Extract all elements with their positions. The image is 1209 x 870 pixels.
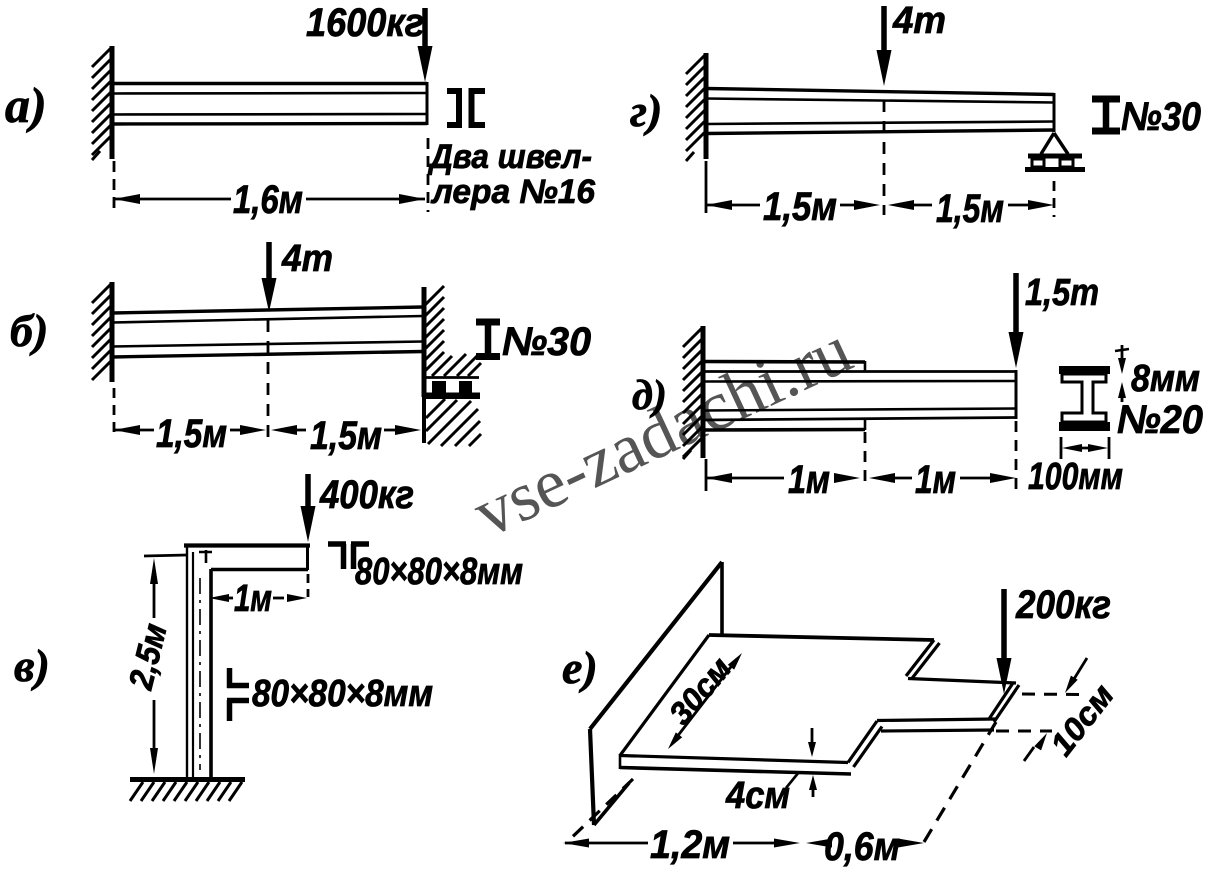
svg-text:1,5т: 1,5т (1025, 272, 1099, 314)
4cm dimension arrows (786, 728, 817, 797)
wall support D (683, 326, 703, 459)
svg-text:1,6м: 1,6м (233, 178, 303, 222)
extension line D middle (dashed) (864, 432, 867, 489)
beam D bottom cover plate (703, 419, 865, 430)
load arrow 4t B (262, 242, 277, 312)
arrow to tip upper (10cm) (1065, 658, 1087, 693)
extension line B left (dashed) (113, 388, 116, 438)
angle pair symbol top (328, 544, 369, 569)
svg-text:№30: №30 (1121, 95, 1201, 139)
wall support G (686, 53, 706, 161)
wall plate (3d) (590, 562, 722, 825)
wall B right lower hatch (426, 399, 481, 446)
beam A (two channels) (112, 82, 427, 125)
svg-text:100мм: 100мм (1028, 456, 1123, 498)
2.5m dimension: top tick (144, 555, 187, 556)
slab narrow extension back edge (908, 679, 1016, 684)
center dashed line G (883, 100, 886, 215)
extension line D right (dashed) (1015, 421, 1018, 489)
svg-text:д): д) (632, 373, 667, 419)
load arrow 200kg (997, 589, 1012, 694)
30cm dimension arrow (668, 653, 742, 749)
extension dashed below arm end (307, 574, 310, 597)
svg-text:400кг: 400кг (319, 473, 414, 517)
bottom dimension 1.2m + 0.6m (563, 839, 924, 848)
slab tip end face (989, 683, 1019, 722)
svg-text:1,2м: 1,2м (650, 823, 730, 867)
ground support (130, 780, 245, 802)
column (two angles) (187, 547, 211, 778)
section D: I-beam outline (1062, 374, 1106, 422)
100mm dimension (1061, 437, 1109, 459)
load arrow 1.5t D (1009, 273, 1024, 368)
svg-text:200кг: 200кг (1015, 583, 1111, 627)
svg-text:1м: 1м (234, 578, 272, 620)
svg-text:1,5м: 1,5м (310, 414, 382, 458)
extension line G left (solid) (705, 161, 708, 213)
svg-text:0,6м: 0,6м (824, 825, 900, 869)
dashed slant line left (to dimension) (566, 779, 633, 843)
svg-text:4см: 4см (725, 775, 790, 817)
2.5m dimension line with arrows (150, 558, 158, 774)
extension line left A (dashed) (113, 161, 116, 208)
svg-text:4т: 4т (281, 238, 333, 280)
svg-text:Два швел-: Два швел- (427, 138, 592, 176)
dimension line B 1.5m+1.5m (114, 425, 421, 435)
slab front step (848, 721, 882, 767)
slab narrow extension front edge (877, 719, 996, 731)
wall B right anchor plates (422, 381, 480, 399)
wall support B left (92, 282, 112, 382)
svg-text:1,5м: 1,5м (156, 412, 227, 456)
svg-text:в): в) (14, 640, 50, 691)
svg-text:лера №16: лера №16 (430, 173, 596, 211)
load arrow 4t G (877, 6, 892, 86)
svg-text:е): е) (562, 642, 598, 693)
beam D (I No20) (703, 370, 1016, 420)
slab back step (906, 640, 940, 679)
extension line D left (solid) (705, 459, 708, 491)
beam D top cover plate (703, 361, 865, 372)
section D: bottom plate (1059, 422, 1110, 431)
arm (horizontal bracket) (184, 544, 310, 570)
beam G (706, 89, 1054, 134)
svg-text:80×80×8мм: 80×80×8мм (355, 551, 523, 593)
extension line right A (dashed) (427, 138, 430, 212)
svg-text:а): а) (5, 77, 47, 133)
arrow to tip lower (10cm) (1024, 733, 1047, 761)
I-beam symbol B (476, 320, 500, 358)
dimension line D 1m+1m (706, 473, 1016, 483)
dimension 1m arm (209, 594, 307, 602)
svg-text:1м: 1м (788, 458, 830, 502)
svg-text:г): г) (630, 85, 662, 136)
section D: top plate (1059, 366, 1110, 374)
wall support A (92, 46, 112, 160)
dimension line 1.6m (114, 194, 425, 204)
center dashed line B (267, 320, 270, 441)
extension line G right (dashed) (1053, 181, 1056, 217)
svg-text:б): б) (10, 305, 48, 356)
svg-text:1м: 1м (915, 458, 956, 502)
wall support B right (424, 286, 481, 397)
dashed line at tip upper (1022, 693, 1080, 697)
channel section symbol ][ (447, 88, 485, 128)
I-beam symbol G (1092, 97, 1120, 133)
roller support G (1025, 133, 1085, 170)
svg-text:1,5м: 1,5м (763, 185, 837, 229)
angle pair symbol bottom (227, 668, 249, 721)
load arrow 400kg (301, 474, 316, 542)
slab top face wide part (620, 635, 934, 774)
svg-text:1600кг: 1600кг (306, 1, 424, 45)
load arrow 1600kg (418, 8, 433, 82)
svg-text:4т: 4т (892, 0, 946, 42)
8mm dimension arrows (1115, 345, 1129, 402)
dashed slant line right (to dimension) (924, 722, 996, 842)
svg-text:80×80×8мм: 80×80×8мм (252, 673, 433, 715)
dashed line at tip lower (996, 730, 1052, 733)
beam B (112, 307, 423, 357)
dimension line G 1.5m+1.5m (706, 200, 1054, 210)
svg-text:№20: №20 (1117, 398, 1203, 442)
svg-text:1,5м: 1,5м (936, 187, 1004, 231)
svg-text:№30: №30 (502, 320, 591, 364)
svg-text:8мм: 8мм (1131, 358, 1200, 400)
